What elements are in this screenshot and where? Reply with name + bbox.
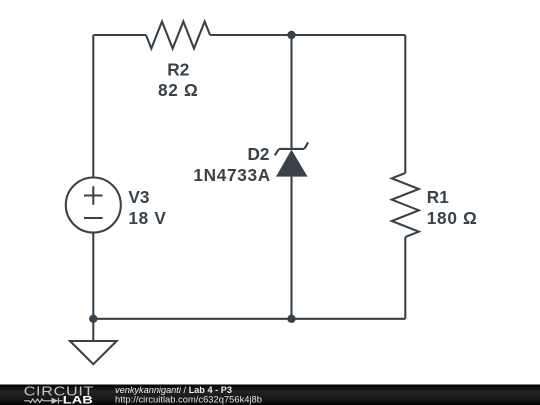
wire middle rail lower: [290, 177, 292, 319]
junction dot bottom middle: [287, 315, 295, 323]
wire right rail upper: [404, 35, 406, 173]
ground symbol triangle: [70, 341, 117, 364]
wire middle rail upper: [290, 35, 292, 149]
svg-text:R2: R2: [167, 59, 189, 79]
wire top-left horizontal lead: [93, 34, 146, 36]
zener D2 cathode bar: [275, 142, 308, 155]
svg-text:LAB: LAB: [63, 393, 93, 405]
node A junction dot top: [287, 31, 295, 39]
svg-text:R1: R1: [427, 187, 449, 207]
resistor R2: [146, 22, 210, 49]
svg-text:D2: D2: [248, 144, 270, 164]
wire left rail upper: [92, 35, 94, 178]
svg-text:180 Ω: 180 Ω: [427, 208, 478, 228]
logo resistor zigzag: [29, 399, 43, 403]
svg-text:1N4733A: 1N4733A: [193, 165, 271, 185]
V3 minus sign: [84, 217, 103, 219]
resistor R1: [392, 173, 419, 237]
logo diode triangle: [52, 398, 59, 404]
wire right rail lower: [404, 237, 406, 319]
svg-text:18 V: 18 V: [128, 208, 166, 228]
zener D2 triangle: [276, 150, 308, 177]
wire top from node A to right corner: [292, 34, 406, 36]
junction dot bottom left: [89, 315, 97, 323]
voltage source V3 circle: [66, 178, 121, 233]
wire top from R2 to node A: [210, 34, 292, 36]
wire bottom rail: [93, 318, 405, 320]
logo schematic wire: [24, 398, 62, 404]
footer bar: [0, 385, 540, 405]
wire left rail lower: [92, 233, 94, 319]
ground stub wire: [92, 319, 94, 341]
V3 plus sign: [84, 186, 103, 205]
svg-text:http://circuitlab.com/c632q756: http://circuitlab.com/c632q756k4j8b: [115, 395, 262, 405]
svg-text:V3: V3: [128, 187, 149, 207]
svg-text:82 Ω: 82 Ω: [158, 80, 198, 100]
